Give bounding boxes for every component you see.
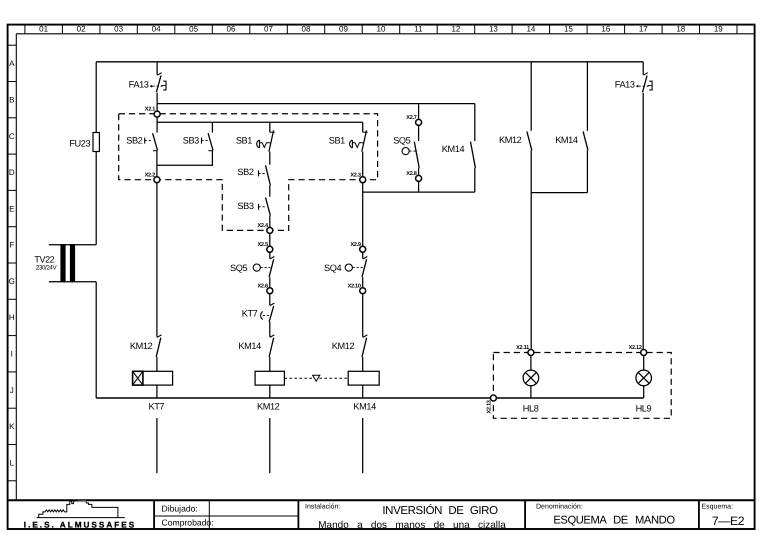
svg-text:07: 07	[264, 24, 273, 33]
thermal relay contact FA13 right	[636, 73, 652, 93]
wire joining lamp branches	[531, 192, 587, 194]
push-button SB3 second contact	[259, 197, 271, 215]
wire SQ4 to node X2.10	[362, 277, 364, 291]
svg-text:INVERSIÓN DE GIRO: INVERSIÓN DE GIRO	[382, 504, 498, 517]
svg-text:X2.7: X2.7	[406, 115, 416, 121]
svg-text:X2.5: X2.5	[257, 242, 267, 248]
wire link to SQ5/KM14 parallel pair	[363, 191, 475, 193]
timed contact KT7	[261, 303, 275, 322]
wire SB1 to SB2 second contact	[269, 152, 271, 165]
wire KM14 contact to coil KM12	[269, 357, 271, 371]
wire stub below KM12	[269, 418, 271, 473]
wire bottom return bus	[96, 397, 644, 399]
svg-text:09: 09	[339, 24, 348, 33]
wire inner bus of two-hand box	[157, 121, 363, 123]
svg-text:KT7: KT7	[242, 309, 258, 319]
svg-text:Instalación:: Instalación:	[305, 502, 340, 510]
node X2.7	[406, 115, 421, 125]
svg-text:I: I	[11, 350, 13, 359]
limit switch SQ5	[253, 257, 274, 278]
node X2.3	[350, 172, 365, 182]
mechanical link dashed with interlock symbol	[284, 375, 348, 381]
svg-text:16: 16	[601, 24, 610, 33]
svg-text:X2.4: X2.4	[257, 223, 268, 229]
safety limit switch SQ5	[402, 142, 419, 168]
svg-text:SB2: SB2	[237, 167, 253, 177]
coil KM12	[255, 371, 284, 385]
svg-text:15: 15	[564, 24, 573, 33]
wire X2.12 to lamp HL9	[643, 355, 645, 370]
svg-text:Esquema:: Esquema:	[702, 503, 734, 510]
wire SB3 lower	[211, 150, 213, 166]
wire branch 17 corner from top bus	[642, 62, 644, 75]
svg-text:FA13: FA13	[615, 79, 635, 89]
wire SB2 lower	[156, 150, 158, 165]
svg-text:K: K	[9, 422, 15, 431]
wire X2.2 down to KM12 aux contact	[156, 183, 158, 337]
wire X2.3 down to X2.9	[362, 183, 364, 250]
svg-text:ESQUEMA DE MANDO: ESQUEMA DE MANDO	[553, 514, 675, 526]
wire to node X2.2	[156, 165, 158, 179]
svg-text:05: 05	[189, 24, 198, 33]
svg-text:X2.3: X2.3	[350, 172, 360, 178]
svg-text:HL8: HL8	[523, 404, 539, 414]
wire SB3 to node X2.4	[269, 216, 271, 231]
wire FA13 to node X2.12	[642, 93, 644, 353]
svg-text:G: G	[9, 277, 15, 286]
svg-text:TV22: TV22	[34, 255, 54, 265]
wire X2.9 to SQ4	[362, 252, 364, 258]
svg-text:KM14: KM14	[353, 402, 376, 412]
svg-text:FU23: FU23	[69, 139, 90, 149]
svg-text:B: B	[9, 96, 14, 105]
svg-text:X2.9: X2.9	[350, 242, 360, 248]
push-button SB2 (NC)	[145, 133, 158, 151]
wire coil KT7 to bottom bus	[156, 385, 158, 398]
svg-text:Comprobado:: Comprobado:	[162, 517, 214, 527]
wire coil KM14 to bottom bus	[362, 385, 364, 398]
wire KM14 contact down	[586, 150, 588, 192]
wire X2.1 to inner bus	[156, 117, 158, 133]
dashed boundary two-hand control station	[119, 114, 378, 231]
svg-text:X2.13: X2.13	[486, 400, 492, 413]
wire KM12 contact to coil KT7	[156, 357, 158, 371]
push-button SB2 second contact	[259, 165, 271, 185]
svg-text:08: 08	[302, 24, 311, 33]
wire X2.6 to KT7 contact	[269, 294, 271, 305]
wire branch 14 from top bus	[530, 62, 532, 131]
node X2.11	[516, 345, 534, 355]
wire X2.4 to X2.5	[269, 233, 271, 249]
svg-text:18: 18	[676, 24, 685, 33]
wire X2.8 to bottom of pair	[418, 181, 420, 192]
aux contact KM12 lamp	[527, 131, 532, 150]
svg-text:FA13: FA13	[129, 79, 149, 89]
svg-text:E: E	[9, 204, 14, 213]
svg-text:03: 03	[114, 24, 123, 33]
node X2.1	[145, 107, 160, 117]
svg-text:X2.12: X2.12	[629, 345, 642, 351]
node X2.4	[257, 223, 272, 233]
wire KM14 contact to pair bottom	[474, 168, 476, 192]
svg-text:KT7: KT7	[148, 402, 164, 412]
wire KM12 contact down	[530, 150, 532, 192]
aux contact KM12 left	[156, 335, 161, 357]
svg-text:SB2: SB2	[126, 135, 142, 145]
wire branch 06 inner bus to SB3	[211, 122, 213, 132]
node X2.9	[350, 242, 365, 252]
wire KM12 contact to coil KM14	[362, 357, 364, 371]
wire KT7 to KM14 aux contact	[269, 322, 271, 337]
svg-text:10: 10	[377, 24, 386, 33]
svg-text:I.E.S. ALMUSSAFES: I.E.S. ALMUSSAFES	[24, 521, 136, 530]
aux contact KM14 lamp	[583, 131, 588, 150]
dashed boundary indicator panel	[493, 353, 671, 419]
wire FA13 to node X2.1	[156, 93, 158, 114]
wire lamp HL9 to bus	[643, 386, 645, 398]
node X2.2	[145, 172, 160, 182]
svg-text:Dibujado:: Dibujado:	[162, 503, 198, 513]
push-button SB1 second mushroom (NO)	[350, 130, 368, 151]
svg-text:F: F	[9, 241, 14, 250]
svg-text:SB1: SB1	[329, 135, 345, 145]
wire X2.5 to SQ5	[269, 252, 271, 258]
wire fuse to transformer primary	[95, 152, 97, 245]
node X2.6	[257, 283, 272, 293]
wire stub below KM14	[362, 418, 364, 473]
svg-text:X2.11: X2.11	[516, 345, 529, 351]
wire branch 09 inner bus down	[362, 122, 364, 132]
node X2.12	[629, 345, 647, 355]
svg-text:X2.10: X2.10	[348, 283, 361, 289]
node X2.10	[348, 283, 366, 293]
indicator lamp HL8	[523, 370, 539, 386]
svg-text:HL9: HL9	[636, 404, 652, 414]
wire branch 11 from row B bus	[418, 104, 420, 123]
aux contact KM12 right	[362, 335, 367, 357]
svg-text:C: C	[9, 132, 15, 141]
wire stub below KT7	[156, 418, 158, 473]
transformer TV22	[49, 244, 96, 282]
node X2.5	[257, 242, 272, 252]
svg-text:13: 13	[489, 24, 498, 33]
wire top supply bus L1	[96, 61, 643, 63]
aux contact KM14 parallel	[471, 142, 476, 168]
wire SQ5 to node X2.8	[418, 168, 420, 179]
node X2.8	[406, 171, 421, 181]
svg-text:04: 04	[152, 24, 161, 33]
svg-text:X2.2: X2.2	[145, 172, 155, 178]
svg-text:SQ5: SQ5	[230, 263, 247, 273]
svg-text:KM14: KM14	[555, 135, 578, 145]
svg-text:SB1: SB1	[236, 135, 252, 145]
svg-text:06: 06	[227, 24, 236, 33]
wire X2.10 to KM12 aux contact	[362, 294, 364, 337]
svg-text:SB3: SB3	[237, 201, 253, 211]
wire transformer secondary to bottom bus	[95, 282, 97, 398]
wire SQ5 to node X2.6	[269, 277, 271, 291]
svg-text:02: 02	[77, 24, 86, 33]
svg-text:KM12: KM12	[130, 341, 153, 351]
svg-text:14: 14	[526, 24, 535, 33]
svg-text:KM12: KM12	[499, 135, 522, 145]
timer coil KT7	[133, 371, 173, 385]
thermal relay contact FA13	[150, 73, 166, 93]
svg-text:KM12: KM12	[257, 402, 280, 412]
svg-text:KM12: KM12	[332, 341, 355, 351]
svg-text:X2.1: X2.1	[145, 107, 155, 113]
svg-text:D: D	[9, 168, 15, 177]
svg-text:KM14: KM14	[442, 144, 465, 154]
svg-text:Mando a dos manos de una cizal: Mando a dos manos de una cizalla	[318, 520, 506, 531]
svg-text:A: A	[9, 59, 15, 68]
svg-text:17: 17	[639, 24, 648, 33]
wire down to node X2.11	[530, 193, 532, 353]
wire control bus row B	[157, 103, 475, 105]
svg-text:7—E2: 7—E2	[712, 514, 745, 528]
svg-text:KM14: KM14	[238, 341, 261, 351]
wire branch 04 from top bus	[156, 62, 158, 75]
wire lamp HL8 to bus	[530, 386, 532, 398]
svg-text:Denominación:: Denominación:	[536, 502, 583, 510]
indicator lamp HL9	[636, 370, 652, 386]
svg-text:11: 11	[414, 24, 423, 33]
wire branch 15 from top bus	[586, 62, 588, 131]
wire branch 07 inner bus down	[269, 122, 271, 132]
svg-text:SQ4: SQ4	[324, 263, 341, 273]
wire SB2-SB3 junction row	[157, 164, 213, 166]
push-button SB3 (NC)	[202, 133, 214, 151]
coil KM14	[348, 371, 379, 385]
wire left supply drop to fuse	[95, 62, 97, 133]
svg-text:12: 12	[451, 24, 460, 33]
svg-text:19: 19	[714, 24, 723, 33]
svg-text:01: 01	[39, 24, 48, 33]
svg-text:X2.6: X2.6	[257, 283, 267, 289]
svg-text:230/24V: 230/24V	[36, 265, 58, 272]
aux contact KM14	[269, 335, 274, 357]
svg-text:X2.8: X2.8	[406, 171, 416, 177]
wire SB2 to SB3 second contact	[269, 185, 271, 196]
push-button SB1 mushroom (NO)	[257, 130, 275, 151]
wire X2.11 to lamp HL8	[530, 355, 532, 370]
node X2.13	[486, 395, 496, 414]
limit switch SQ4	[345, 257, 367, 278]
wire SB1 to node X2.3	[362, 152, 364, 180]
svg-text:J: J	[10, 386, 14, 395]
svg-text:SB3: SB3	[183, 135, 199, 145]
fuse FU23	[93, 133, 99, 152]
svg-text:L: L	[10, 458, 15, 467]
svg-text:SQ5: SQ5	[393, 136, 410, 146]
wire coil KM12 to bottom bus	[269, 385, 271, 398]
wire X2.7 to SQ5 safety switch	[418, 125, 420, 141]
wire branch 12 from row B bus corner	[474, 104, 476, 141]
svg-text:H: H	[9, 313, 15, 322]
